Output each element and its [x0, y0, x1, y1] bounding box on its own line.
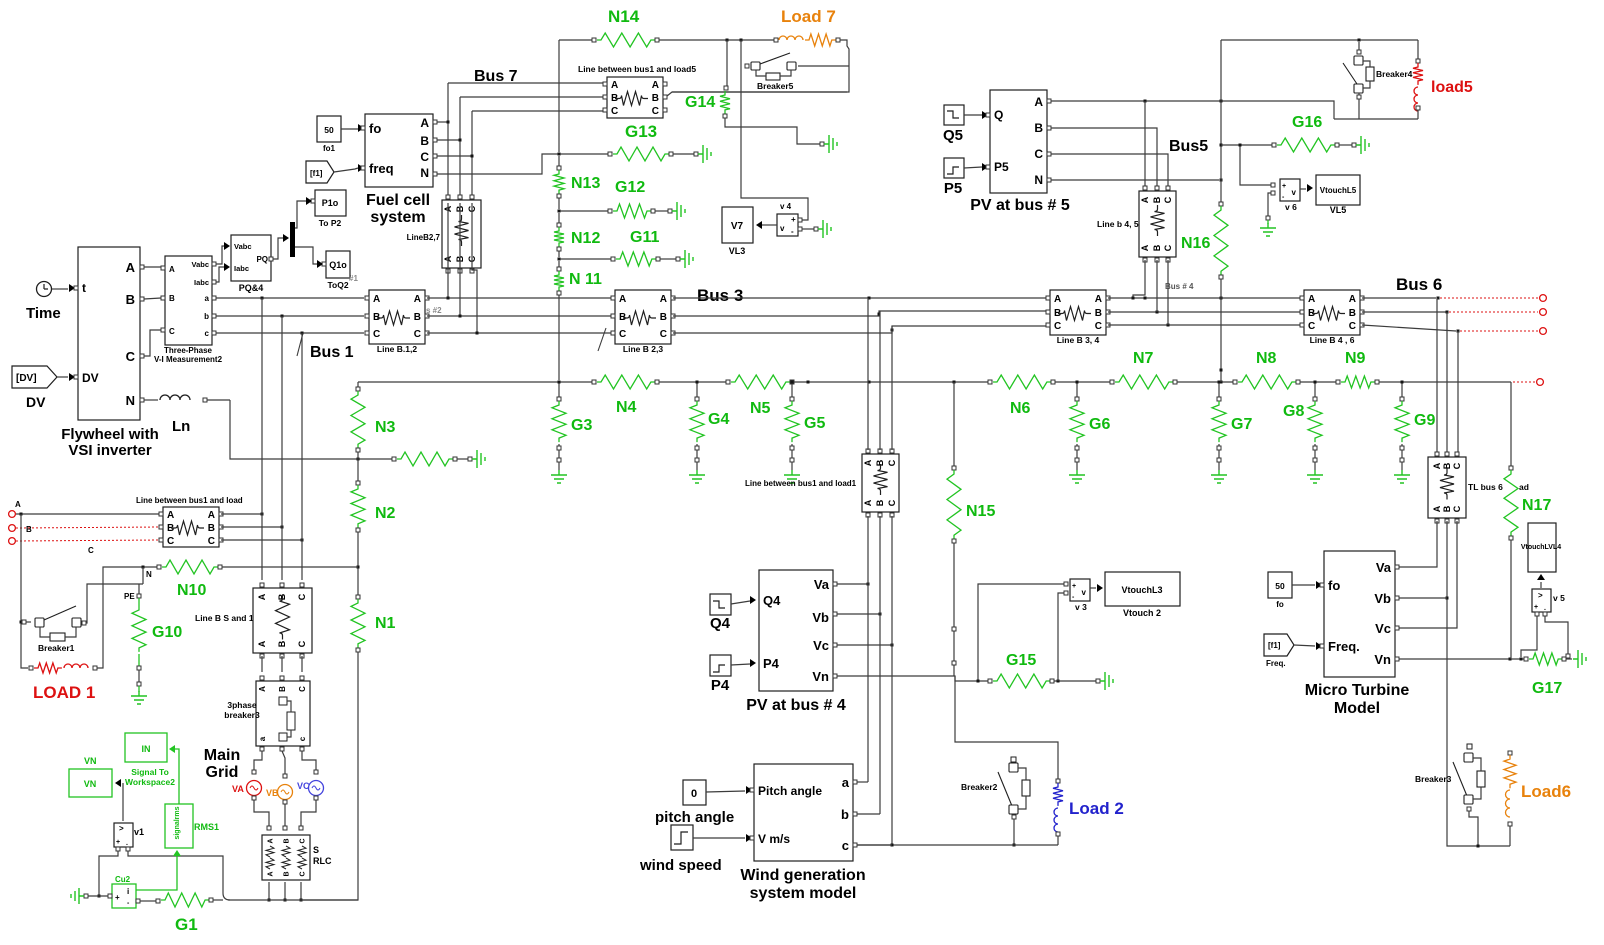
wire G13row to ground — [673, 152, 698, 156]
resistor Load7 — [805, 34, 836, 46]
svg-text:Vb: Vb — [812, 610, 829, 625]
svg-text:N2: N2 — [375, 505, 396, 522]
svg-text:N: N — [1034, 173, 1043, 187]
wire v1 right down — [128, 851, 223, 893]
wire Time to t — [52, 284, 75, 292]
svg-text:Vn: Vn — [812, 669, 829, 684]
svg-text:Bus # 4: Bus # 4 — [1165, 282, 1194, 291]
svg-text:Pitch angle: Pitch angle — [758, 784, 822, 798]
wire lbl1 C down — [891, 516, 893, 845]
svg-text:c: c — [298, 736, 307, 741]
wire Vb out — [1399, 597, 1447, 599]
label Signal To Workspace2 — [125, 767, 175, 787]
svg-text:Line B.1,2: Line B.1,2 — [377, 344, 417, 354]
svg-text:N: N — [126, 393, 135, 408]
ground G16 — [1356, 136, 1369, 154]
wire bus3 B — [673, 311, 1048, 316]
wire N16 column top — [1220, 40, 1223, 202]
resistor N12 — [554, 227, 564, 247]
wire flywheel B to meas — [144, 298, 161, 299]
ground G6 — [1069, 470, 1085, 483]
label LOAD 1 — [33, 683, 95, 702]
label Breaker5 — [757, 81, 794, 91]
svg-text:A: A — [863, 499, 873, 506]
svg-text:N14: N14 — [608, 7, 640, 26]
wire 0 to wind — [706, 786, 752, 794]
svg-text:Freq.: Freq. — [1328, 639, 1360, 654]
svg-text:C: C — [1034, 147, 1043, 161]
label Load6 — [1521, 782, 1571, 801]
wire TL A up — [1436, 298, 1438, 452]
label load clipped — [1519, 482, 1529, 492]
label ToQ2 — [327, 274, 358, 290]
annotation tick Bus3 — [598, 328, 606, 351]
ground G2 — [472, 450, 485, 468]
svg-text:C: C — [169, 327, 175, 336]
label G15 — [1006, 652, 1036, 669]
label VN tag — [84, 756, 97, 766]
wire G12 to ground — [655, 209, 672, 213]
mux Mux1 — [290, 222, 295, 257]
port N4 right — [655, 380, 659, 384]
port G9 bot — [1400, 458, 1404, 462]
svg-text:Line B 4 , 6: Line B 4 , 6 — [1310, 335, 1355, 345]
svg-text:C: C — [652, 106, 659, 117]
port N3 top — [356, 387, 360, 391]
label P5 — [944, 180, 962, 197]
wire N16 down — [1220, 279, 1223, 382]
port G16 right — [1335, 143, 1339, 147]
wire neutral 3 — [794, 381, 988, 384]
resistor G9 — [1395, 401, 1409, 442]
label v 3 — [1075, 602, 1087, 612]
wire PV5 N out — [1051, 179, 1223, 182]
label Vtouch 2 — [1123, 608, 1161, 618]
svg-text:v 5: v 5 — [1553, 593, 1565, 603]
label Q4 — [710, 615, 731, 632]
svg-text:Vn: Vn — [1374, 652, 1391, 667]
block constant 50 fo — [1268, 572, 1292, 598]
svg-text:B: B — [126, 292, 135, 307]
svg-text:B: B — [277, 640, 287, 647]
svg-text:v: v — [1292, 188, 1297, 197]
label v 4 — [780, 202, 792, 211]
wire fuelcell B to bus7 — [437, 97, 462, 196]
wire N1 down — [302, 652, 358, 900]
port N13 top — [557, 166, 561, 170]
wire G9 gnd — [1401, 444, 1403, 470]
svg-text:A: A — [1349, 294, 1356, 305]
label N14 — [608, 7, 640, 26]
svg-text:Line B 3, 4: Line B 3, 4 — [1057, 335, 1100, 345]
port Load6 top — [1508, 751, 1512, 755]
wire lbl1 C up — [891, 326, 893, 450]
resistor N4 — [597, 375, 655, 389]
wire fo to micro — [1292, 581, 1322, 589]
port Load2 bottom — [1056, 832, 1060, 836]
svg-text:B: B — [208, 523, 215, 534]
block v3 — [1064, 579, 1090, 601]
wire Cu2 left — [84, 894, 108, 898]
svg-text:a: a — [205, 294, 210, 303]
wire loadline B out — [221, 526, 284, 529]
wire N15 top — [953, 382, 955, 466]
svg-text:Bus5: Bus5 — [1169, 138, 1208, 155]
wire Cu2 i out — [136, 850, 181, 890]
port G9 top — [1400, 397, 1404, 401]
wire G14 to ground — [725, 118, 820, 144]
resistor G15 — [993, 674, 1050, 688]
svg-text:G17: G17 — [1532, 680, 1562, 697]
wire loadline A out — [221, 513, 264, 516]
svg-text:A: A — [1432, 462, 1442, 469]
label Flywheel with VSI inverter — [61, 426, 159, 459]
port G1 left — [156, 899, 160, 903]
port N10 right — [218, 565, 222, 569]
svg-text:a: a — [842, 775, 850, 790]
svg-text:A: A — [267, 871, 274, 876]
resistor N2 — [351, 485, 365, 528]
label PE — [124, 592, 135, 601]
svg-text:VB: VB — [266, 788, 279, 798]
wire lineb45 A up — [1144, 101, 1146, 186]
port N2 bottom — [356, 528, 360, 532]
block S RLC — [262, 835, 310, 880]
wire G9 tap — [1401, 381, 1404, 398]
port G8 mid — [1313, 446, 1317, 450]
label Micro Turbine Model — [1305, 682, 1410, 717]
label N13 — [571, 175, 600, 192]
block step Q5 — [944, 105, 964, 125]
wire busdrop C — [301, 333, 303, 580]
svg-text:Q1o: Q1o — [329, 260, 347, 270]
wire phase A — [16, 513, 159, 516]
ground v4 — [818, 220, 831, 238]
svg-text:G7: G7 — [1231, 416, 1252, 433]
svg-text:A: A — [1034, 95, 1043, 109]
label N15 — [966, 503, 995, 520]
label G1 — [175, 915, 198, 934]
svg-text:B: B — [1349, 308, 1356, 319]
resistor N13 — [554, 170, 564, 194]
wire wind b out — [857, 813, 880, 815]
wire TL C up — [1457, 331, 1459, 452]
wire N15 to load2 — [955, 676, 1058, 779]
port G15 gnd — [1096, 679, 1100, 683]
label Breaker1 — [38, 643, 75, 653]
svg-text:freq: freq — [369, 161, 394, 176]
wire N2 to N1 — [357, 532, 360, 595]
svg-text:B: B — [169, 294, 175, 303]
svg-text:DV: DV — [82, 371, 99, 385]
label Bus 6 — [1396, 275, 1442, 294]
label Bus # 4 — [1165, 282, 1194, 291]
resistor N7 — [1115, 375, 1173, 389]
resistor N6 — [993, 375, 1051, 389]
ground G15 — [1100, 672, 1113, 690]
wire bus7 A — [448, 82, 603, 84]
block Line b 4, 5 — [1139, 186, 1176, 262]
breaker Breaker1 — [22, 606, 86, 641]
port G7 mid — [1217, 446, 1221, 450]
label v 6 — [1285, 202, 1297, 212]
wire v3 minus — [1058, 593, 1064, 681]
label Three-Phase V-I Measurement2 — [154, 346, 223, 364]
svg-text:PQ&4: PQ&4 — [239, 283, 264, 293]
wire windspeed to wind — [693, 834, 752, 842]
wire TL B down — [1446, 521, 1511, 846]
wire G16 right — [1339, 143, 1356, 147]
svg-text:Breaker4: Breaker4 — [1376, 69, 1413, 79]
svg-text:C: C — [1349, 321, 1356, 332]
svg-text:+: + — [1072, 583, 1076, 590]
svg-text:C: C — [1452, 505, 1462, 512]
svg-text:G8: G8 — [1283, 403, 1304, 420]
svg-text:Grid: Grid — [206, 764, 239, 781]
wire neutral 2 — [659, 381, 726, 384]
wire breaker to VC — [302, 751, 318, 774]
wire bus2 C — [427, 332, 612, 335]
svg-text:C: C — [1163, 196, 1173, 203]
svg-text:Vtouch 2: Vtouch 2 — [1123, 608, 1161, 618]
resistor N10 — [162, 560, 218, 574]
svg-text:P4: P4 — [711, 677, 730, 694]
label G12 — [615, 179, 645, 196]
svg-text:pitch angle: pitch angle — [655, 809, 734, 826]
svg-text:fo: fo — [369, 121, 381, 136]
svg-text:A: A — [169, 265, 175, 274]
port G3 mid — [557, 446, 561, 450]
wire Vabc to PQ — [216, 242, 230, 264]
svg-text:C: C — [1054, 321, 1061, 332]
label N node — [146, 570, 152, 579]
wire breaker1 right up — [86, 584, 143, 623]
svg-text:TL bus 6: TL bus 6 — [1468, 482, 1503, 492]
svg-text:G1: G1 — [175, 915, 198, 934]
wire lbl1 B down — [879, 516, 881, 814]
svg-text:ad: ad — [1519, 482, 1529, 492]
svg-text:G10: G10 — [152, 624, 182, 641]
svg-text:v 4: v 4 — [780, 202, 792, 211]
svg-text:.: . — [126, 840, 128, 847]
port N15 bottom — [952, 539, 956, 543]
svg-text:A: A — [1054, 294, 1061, 305]
resistor N15 — [947, 470, 961, 539]
wire breaker2 down — [1013, 819, 1016, 847]
inductor Ln — [160, 395, 190, 400]
wire bus6 B — [1362, 311, 1449, 314]
source VA — [232, 781, 262, 796]
svg-text:Freq.: Freq. — [1266, 659, 1286, 668]
svg-text:To P2: To P2 — [319, 218, 342, 228]
wire N node — [142, 567, 144, 584]
resistor G8 — [1308, 401, 1322, 442]
svg-text:Bus 3: Bus 3 — [697, 286, 743, 305]
label Q5 — [943, 127, 963, 144]
svg-text:C: C — [373, 329, 380, 340]
port G8 top — [1313, 397, 1317, 401]
terminal circle bus6 A — [1540, 295, 1547, 302]
port N2 top — [356, 481, 360, 485]
svg-text:C: C — [299, 871, 306, 876]
svg-text:C: C — [611, 106, 618, 117]
svg-text:B: B — [1152, 196, 1162, 203]
svg-text:v: v — [780, 224, 785, 233]
ground G8 — [1307, 470, 1323, 483]
svg-text:N4: N4 — [616, 399, 637, 416]
wire bus2 B — [427, 315, 612, 318]
wire bus3 A — [673, 297, 1223, 300]
inductor LOAD1 — [64, 664, 88, 668]
wire Q5 to PV5 — [964, 111, 988, 119]
label G10 — [152, 624, 182, 641]
svg-text:[DV]: [DV] — [16, 373, 37, 384]
svg-text:C: C — [167, 536, 174, 547]
svg-text:N13: N13 — [571, 175, 600, 192]
svg-text:A: A — [1140, 244, 1150, 251]
label Fuel cell system — [366, 192, 430, 226]
label P4 — [711, 677, 730, 694]
resistor Load6 — [1504, 755, 1516, 788]
wire N14 to v4 — [741, 40, 808, 220]
resistor LOAD1 — [34, 663, 62, 673]
block v6 — [1271, 179, 1300, 201]
label N6 — [1010, 400, 1031, 417]
port N8 right — [1296, 380, 1300, 384]
resistor G2 — [397, 452, 453, 466]
resistor G3 — [552, 401, 566, 442]
svg-text:C: C — [298, 686, 307, 692]
resistor G4 — [690, 401, 704, 442]
port N10 left — [157, 565, 161, 569]
wire G8 gnd — [1314, 444, 1316, 470]
svg-text:Va: Va — [814, 577, 830, 592]
wire v3 to scope — [1090, 584, 1103, 592]
block constant 0 — [683, 780, 706, 805]
svg-text:a: a — [258, 736, 267, 741]
svg-text:N8: N8 — [1256, 350, 1277, 367]
wire Ln down to G2 — [230, 400, 392, 459]
terminal circle A — [9, 511, 16, 518]
wire G8 tap — [1314, 381, 1317, 398]
wire N2 link — [357, 452, 359, 481]
wire G5 gnd — [791, 444, 793, 470]
label Line B 2,3 — [623, 344, 663, 354]
label TL bus 6 — [1468, 482, 1503, 492]
label G8 — [1283, 403, 1304, 420]
svg-text:A: A — [258, 686, 267, 692]
resistor N1 — [351, 599, 365, 648]
svg-text:Line B 2,3: Line B 2,3 — [623, 344, 663, 354]
port G1 right — [209, 898, 213, 902]
wire v6 minus — [1268, 193, 1271, 216]
label Bus 7 — [474, 68, 518, 85]
svg-text:+: + — [116, 839, 120, 846]
svg-text:G3: G3 — [571, 417, 592, 434]
svg-text:[f1]: [f1] — [310, 169, 323, 178]
wire lineB27 A down — [447, 203, 450, 300]
wire bus1 A — [216, 297, 364, 300]
svg-text:N: N — [146, 570, 152, 579]
port N6 left — [988, 380, 992, 384]
label load5 — [1431, 79, 1473, 96]
label Bus 1 — [310, 344, 354, 361]
wire Va out — [837, 583, 870, 586]
svg-text:#1: #1 — [349, 274, 358, 283]
port N14 left — [592, 38, 596, 42]
wire G1 right — [213, 899, 223, 901]
port G15 left — [988, 679, 992, 683]
wire f1 to micro — [1294, 642, 1322, 650]
label G11 — [630, 229, 659, 246]
label wind speed — [639, 857, 722, 874]
svg-text:fo: fo — [1276, 600, 1284, 609]
port G2 left — [392, 457, 396, 461]
block VtouchL3 — [1105, 572, 1180, 606]
port N11 top — [557, 267, 561, 271]
label PV at bus # 5 — [970, 197, 1070, 214]
block constant 50 fo1 — [317, 116, 341, 142]
block Line B S and 1 — [253, 583, 312, 658]
svg-text:B: B — [652, 93, 659, 104]
block Line B.1,2 — [365, 290, 429, 344]
label N4 — [616, 399, 637, 416]
port G6 bot — [1075, 458, 1079, 462]
svg-text:c: c — [205, 329, 210, 338]
svg-text:B: B — [283, 838, 290, 843]
wire breaker3 down — [1469, 811, 1480, 848]
wire lineb45 B down — [1156, 260, 1158, 312]
wire lineb45 A down — [1132, 260, 1146, 300]
wire G10 gnd — [138, 686, 140, 692]
svg-text:v 3: v 3 — [1075, 602, 1087, 612]
svg-text:A: A — [1140, 196, 1150, 203]
wire neutral 6 — [1300, 381, 1336, 384]
svg-text:LineB2,7: LineB2,7 — [407, 233, 441, 242]
ground G4 — [689, 470, 705, 483]
port G5 top — [790, 397, 794, 401]
breaker Breaker5 — [745, 53, 796, 80]
wire loadline C out — [221, 539, 304, 542]
label Line between bus1 and load1 — [745, 479, 857, 488]
svg-text:N16: N16 — [1181, 235, 1210, 252]
ground G5 — [784, 470, 800, 483]
ground G13 row — [698, 145, 711, 163]
svg-text:v: v — [1082, 588, 1087, 597]
svg-text:VSI inverter: VSI inverter — [68, 442, 152, 459]
inductor load5 — [1414, 87, 1418, 111]
block goto Q1o — [322, 251, 350, 278]
svg-text:N3: N3 — [375, 419, 396, 436]
label G7 — [1231, 416, 1252, 433]
svg-text:G16: G16 — [1292, 114, 1322, 131]
resistor N5 — [731, 375, 790, 389]
label Load 2 — [1069, 799, 1124, 818]
svg-text:VN: VN — [84, 756, 97, 766]
label Line between bus1 and load — [136, 496, 243, 505]
label Line between bus1 and load5 — [578, 64, 696, 74]
svg-text:Vc: Vc — [813, 638, 829, 653]
port G2 right — [453, 457, 457, 461]
block v5 — [1532, 589, 1551, 616]
ground G9 — [1394, 470, 1410, 483]
svg-text:B: B — [1152, 244, 1162, 251]
ground G12 — [672, 202, 685, 220]
breaker Breaker3 — [1453, 744, 1485, 811]
label fo — [1276, 600, 1284, 609]
resistor G16 — [1277, 138, 1335, 152]
svg-text:Cu2: Cu2 — [115, 875, 131, 884]
